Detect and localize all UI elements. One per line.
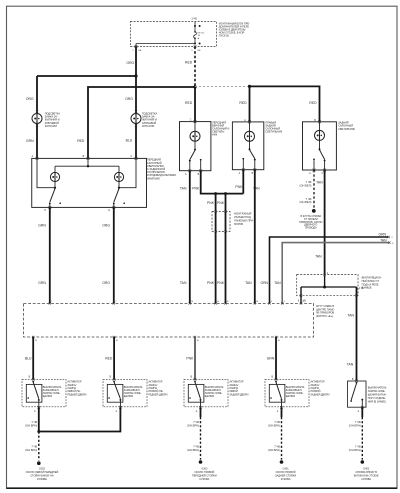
terminal A S3 bbox=[199, 406, 202, 409]
node junction at ORG branch bbox=[134, 74, 137, 77]
svg-text:ЩЕНИЯ: ЩЕНИЯ bbox=[286, 395, 295, 398]
svg-text:РЕДНЕЙ ДВЕРИ: РЕДНЕЙ ДВЕРИ bbox=[148, 393, 167, 396]
svg-text:1 ЧБ: 1 ЧБ bbox=[191, 16, 197, 20]
terminal B S2 bbox=[113, 378, 116, 381]
terminal to other page lower bbox=[388, 241, 390, 243]
wire dashed to ground G302 bbox=[38, 432, 40, 461]
svg-text:КУЗОВА: КУЗОВА bbox=[200, 478, 210, 481]
wire GRN to switch S4 bbox=[275, 337, 277, 379]
wire BLK dashed from M3 pin A to splice bbox=[313, 170, 315, 209]
switch M1 bbox=[194, 149, 196, 151]
wire dashed rail segment bbox=[195, 86, 250, 88]
switch box S2 bbox=[107, 384, 123, 402]
svg-text:RED: RED bbox=[77, 139, 85, 143]
trunk switch S5 box bbox=[348, 381, 367, 407]
wire PNK drop b bbox=[225, 194, 227, 304]
svg-text:PNK: PNK bbox=[192, 186, 200, 190]
svg-text:PNK: PNK bbox=[207, 281, 215, 285]
fuse box internal bus bbox=[136, 43, 195, 45]
wire ORG down to lamp I2 bbox=[135, 76, 137, 158]
fuse F (ПР 25) symbol bbox=[194, 32, 197, 38]
wire TAN from M1 pin A to connector bbox=[189, 171, 191, 304]
svg-text:GRN: GRN bbox=[267, 356, 275, 360]
harness connector box (dashed) bbox=[24, 303, 314, 337]
switch U1a bbox=[50, 189, 55, 203]
switch S1 bbox=[32, 381, 34, 383]
svg-text:TAN: TAN bbox=[380, 239, 387, 243]
svg-text:(КОРПУС «Е»): (КОРПУС «Е») bbox=[316, 315, 333, 318]
svg-text:TAN: TAN bbox=[315, 254, 322, 258]
lamp M2 bbox=[249, 122, 251, 131]
box U1 wire from pin A bbox=[37, 158, 55, 187]
svg-text:RED: RED bbox=[105, 356, 113, 360]
svg-text:TAN: TAN bbox=[253, 186, 260, 190]
wire PNK to switch S3 bbox=[194, 337, 196, 379]
svg-text:TAN: TAN bbox=[274, 281, 281, 285]
box M3 terminal bbox=[318, 120, 321, 123]
svg-text:(ОН БРН): (ОН БРН) bbox=[25, 424, 37, 428]
svg-text:PNK: PNK bbox=[207, 201, 215, 205]
wire TAN from M2 pin B to connector bbox=[254, 170, 256, 304]
svg-text:TAN: TAN bbox=[245, 281, 252, 285]
box U1 terminals bbox=[36, 157, 39, 160]
switch S4 bbox=[275, 381, 277, 383]
svg-text:(ОН БРН): (ОН БРН) bbox=[187, 424, 199, 428]
svg-text:КУЗОВА: КУЗОВА bbox=[281, 478, 291, 481]
fuse box exit terminal left bbox=[135, 45, 138, 48]
terminal A S2 bbox=[119, 406, 122, 409]
lamp U1a bbox=[54, 166, 56, 172]
svg-text:PNK: PNK bbox=[186, 356, 194, 360]
terminal A S1 bbox=[38, 406, 41, 409]
wire dashed to ground G303 bbox=[200, 417, 202, 460]
svg-text:ЗАДНЕЙ ДВЕРИ: ЗАДНЕЙ ДВЕРИ bbox=[310, 393, 329, 396]
switch S2 bbox=[113, 381, 115, 383]
ground G303 bbox=[199, 460, 203, 464]
page border bottom rule bbox=[7, 487, 398, 489]
wire BLU to switch S1 bbox=[32, 337, 34, 379]
svg-text:ЩЕНИЯ: ЩЕНИЯ bbox=[124, 395, 133, 398]
wire RED to switch S2 bbox=[113, 337, 115, 379]
ground G302 bbox=[37, 461, 41, 465]
svg-text:BLU: BLU bbox=[25, 356, 32, 360]
fuse box exit terminal right bbox=[194, 45, 197, 48]
svg-text:ПРОВОДА: ПРОВОДА bbox=[305, 227, 317, 230]
node splice PNK a bbox=[214, 192, 217, 195]
wire drop to connector pin 8 bbox=[300, 287, 302, 303]
svg-text:GRN: GRN bbox=[38, 281, 46, 285]
svg-text:GRN: GRN bbox=[26, 139, 34, 143]
wire PNK from M1 pin B bbox=[201, 171, 244, 194]
svg-text:КОНСОЛИ: КОНСОЛИ bbox=[142, 125, 154, 128]
terminal B S3 bbox=[194, 378, 197, 381]
svg-text:TAN: TAN bbox=[347, 362, 354, 366]
switch M2 bbox=[249, 148, 251, 150]
svg-text:RED: RED bbox=[309, 101, 317, 105]
terminal B S4 bbox=[275, 378, 278, 381]
svg-text:(ОН БРН): (ОН БРН) bbox=[268, 424, 280, 428]
svg-text:ORG: ORG bbox=[102, 281, 110, 285]
switch S5 bbox=[356, 382, 358, 384]
svg-text:СВЕТИЛЬНИК: СВЕТИЛЬНИК bbox=[265, 131, 282, 134]
svg-text:(ОН БРН): (ОН БРН) bbox=[268, 448, 280, 452]
relay box internal rail bbox=[301, 286, 357, 288]
wire PNK drop a bbox=[215, 194, 217, 304]
wire GRN from U1 pin D to connector bbox=[49, 207, 51, 303]
box M3 bottom terminals bbox=[313, 169, 316, 172]
svg-text:НИК: НИК bbox=[212, 134, 218, 137]
ground G401 bbox=[280, 460, 284, 464]
box M2 terminal bbox=[248, 121, 251, 124]
terminal B S5 bbox=[355, 380, 358, 383]
wire dashed to ground G401 bbox=[281, 417, 283, 460]
svg-text:GRN: GRN bbox=[378, 233, 386, 237]
svg-text:4 ЧБ: 4 ЧБ bbox=[359, 288, 364, 290]
node splice at x195 bbox=[193, 85, 196, 88]
svg-text:ПУСЕ В): ПУСЕ В) bbox=[219, 35, 229, 38]
svg-text:RED: RED bbox=[185, 101, 193, 105]
switch box S1 bbox=[26, 384, 42, 402]
svg-text:GRN: GRN bbox=[260, 281, 268, 285]
wire RED rail left segment bbox=[88, 87, 195, 158]
terminal to other page upper bbox=[387, 236, 389, 238]
svg-text:(ОН БРН): (ОН БРН) bbox=[349, 448, 361, 452]
svg-text:РЕДНЕЙ ДВЕРИ: РЕДНЕЙ ДВЕРИ bbox=[67, 393, 86, 396]
fuse box internal wire to bus bbox=[194, 38, 196, 43]
wire from S4 to ground bbox=[281, 407, 283, 417]
wire RED dashed from fuse exit down bbox=[194, 47, 196, 87]
terminal A S5 bbox=[361, 406, 364, 409]
svg-text:TAN: TAN bbox=[180, 186, 187, 190]
wire from S3 to ground bbox=[200, 407, 202, 417]
wire RED rail right segment bbox=[250, 86, 320, 121]
wire ORG down to lamp I1 bbox=[36, 76, 38, 158]
wire ground tie from S2 bbox=[39, 407, 121, 431]
connector top pins bbox=[49, 302, 51, 304]
inline connector C2 (dashed) bbox=[212, 211, 230, 231]
switch box S4 bbox=[269, 384, 285, 402]
wire PNK from M2 pin A bbox=[242, 170, 244, 194]
box M1 front overhead lamp bbox=[180, 122, 211, 171]
switch S3 bbox=[194, 381, 196, 383]
box U1 lamp rail bbox=[55, 165, 119, 167]
svg-text:КУЗОВА: КУЗОВА bbox=[361, 478, 371, 481]
svg-text:TAN: TAN bbox=[316, 181, 323, 185]
svg-text:PNK: PNK bbox=[235, 185, 243, 189]
wire TAN from M3 pin C down bbox=[324, 170, 326, 276]
svg-text:(ОН БРН): (ОН БРН) bbox=[349, 424, 361, 428]
relay box K1 (dashed) bbox=[297, 275, 358, 296]
box U1 wire from pin C bbox=[119, 158, 136, 187]
wire dashed to ground G402 bbox=[361, 417, 363, 460]
box M2 bottom terminals bbox=[242, 168, 245, 171]
svg-text:(ОН БЕЛ): (ОН БЕЛ) bbox=[300, 184, 312, 188]
wire RED drop to box M2 bbox=[249, 86, 251, 122]
switch box S3 bbox=[188, 384, 204, 402]
wire ORG from fuse exit down bbox=[135, 47, 137, 77]
node splice at x249 bbox=[248, 85, 251, 88]
door module S3 (dashed) bbox=[184, 379, 228, 406]
fuse/relay box (dashed) bbox=[131, 22, 217, 47]
wire TAN gray horizontal to right edge bbox=[282, 243, 389, 304]
svg-text:TAN: TAN bbox=[347, 314, 354, 318]
svg-text:ORG: ORG bbox=[102, 223, 110, 227]
wire from S1 to ground tie bbox=[38, 407, 40, 431]
svg-text:RED: RED bbox=[185, 61, 193, 65]
svg-text:СВЕТИЛЬНИК: СВЕТИЛЬНИК bbox=[338, 128, 355, 131]
terminal B S1 bbox=[32, 378, 35, 381]
wire TAN to trunk switch bbox=[356, 287, 358, 381]
splice S1 node bbox=[312, 209, 316, 213]
box U1 internal feed bbox=[87, 158, 89, 166]
switch U1b bbox=[114, 189, 119, 203]
svg-text:ЩЕНИЯ: ЩЕНИЯ bbox=[43, 395, 52, 398]
svg-text:(ОН БЕЛ): (ОН БЕЛ) bbox=[300, 200, 312, 204]
svg-text:ORG: ORG bbox=[126, 61, 134, 65]
svg-text:ЗАДНЕЙ ДВЕРИ: ЗАДНЕЙ ДВЕРИ bbox=[229, 393, 248, 396]
svg-text:PNK: PNK bbox=[217, 201, 225, 205]
terminal A S4 bbox=[280, 406, 283, 409]
wire RED drop to box M1 bbox=[194, 87, 196, 122]
svg-text:БОРОВ: БОРОВ bbox=[234, 223, 243, 226]
svg-text:ORG: ORG bbox=[125, 97, 133, 101]
wire GRN horizontal to right edge bbox=[270, 237, 389, 303]
lamp M1 bbox=[194, 122, 196, 132]
svg-text:TAN: TAN bbox=[180, 281, 187, 285]
svg-text:(ОН БРН): (ОН БРН) bbox=[187, 448, 199, 452]
box M1 bottom terminals bbox=[188, 169, 191, 172]
svg-text:ПР 25,: ПР 25, bbox=[198, 32, 205, 34]
switch M3 bbox=[319, 148, 321, 150]
node splice PNK b bbox=[224, 192, 227, 195]
ground G402 bbox=[361, 460, 365, 464]
svg-text:(ОН БРН): (ОН БРН) bbox=[25, 448, 37, 452]
box M1 terminal bbox=[194, 120, 197, 123]
svg-text:ЩЕНИЯ: ЩЕНИЯ bbox=[205, 395, 214, 398]
svg-text:НИЯ (В ЗАМКЕ): НИЯ (В ЗАМКЕ) bbox=[368, 400, 386, 403]
box M2 right rear lamp bbox=[232, 122, 263, 170]
ground tie node bbox=[37, 430, 40, 433]
svg-text:ORG: ORG bbox=[26, 97, 34, 101]
fuse box internal feed wire bbox=[194, 22, 196, 27]
wire ORG from U1 pin E to connector bbox=[113, 207, 115, 303]
lamp U1b bbox=[118, 166, 120, 172]
fuse box internal junction dots bbox=[194, 25, 196, 27]
relay box terminal top bbox=[323, 274, 325, 276]
door module S4 (dashed) bbox=[265, 379, 309, 406]
svg-text:BLU: BLU bbox=[126, 138, 133, 142]
lamp I2 illumination bbox=[135, 110, 137, 112]
svg-text:RED: RED bbox=[239, 101, 247, 105]
svg-text:GRN: GRN bbox=[38, 223, 46, 227]
relay box internal wire bbox=[324, 276, 326, 287]
connector bottom pins bbox=[32, 336, 34, 338]
svg-text:КОНСОЛИ: КОНСОЛИ bbox=[45, 125, 57, 128]
svg-text:КУЗОВЕ: КУЗОВЕ bbox=[37, 478, 47, 481]
door module S1 (dashed) bbox=[22, 379, 66, 406]
wire ORG branch left bbox=[37, 75, 136, 77]
wire from S5 to ground bbox=[361, 407, 363, 417]
lamp M3 bbox=[319, 122, 321, 131]
box U1 front interior lamp bbox=[32, 158, 147, 207]
lamp I1 ignition key illumination bbox=[36, 110, 38, 112]
svg-text:PNK: PNK bbox=[217, 281, 225, 285]
box U1 bottom terminals bbox=[48, 206, 51, 209]
door module S2 (dashed) bbox=[103, 379, 147, 406]
box M3 rear interior lamp bbox=[303, 122, 337, 170]
svg-text:ЛАМПАМИ: ЛАМПАМИ bbox=[147, 177, 160, 180]
